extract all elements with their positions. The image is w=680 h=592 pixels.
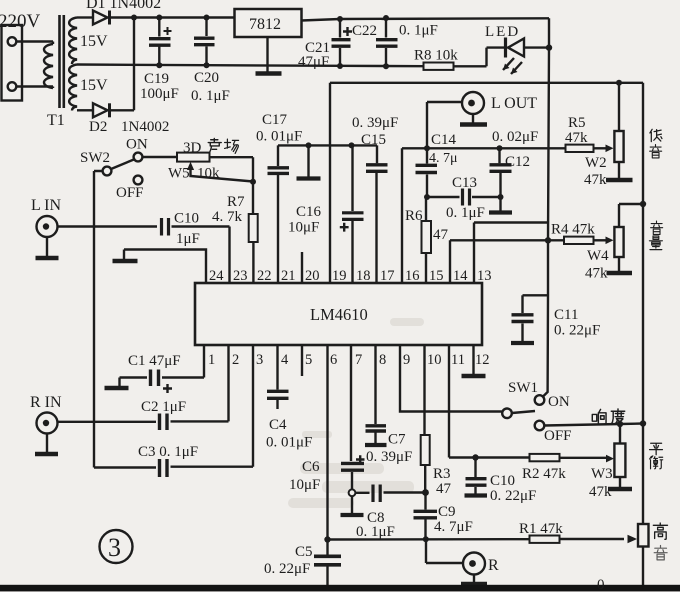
bottom scan border [0, 585, 680, 592]
pin20 stub [301, 252, 303, 283]
svg-text:LM4610: LM4610 [310, 305, 368, 324]
capacitor C9 4.7uF [424, 493, 426, 510]
faint watermark remnants [288, 318, 424, 508]
regulator U2 7812 [235, 9, 302, 37]
wire pin16 rail to R5 [402, 148, 596, 283]
resistor R5 47k [566, 145, 594, 152]
node junction D2 riser [131, 15, 137, 21]
svg-text:47: 47 [436, 481, 452, 497]
wire pin6 down to bottom rail [326, 345, 328, 540]
svg-text:47μF: 47μF [298, 54, 329, 70]
capacitor C4 0.01uF [276, 345, 278, 390]
svg-text:0. 01μF: 0. 01μF [256, 129, 302, 145]
capacitor C19 [156, 15, 162, 21]
svg-text:C19: C19 [144, 71, 169, 87]
svg-text:OFF: OFF [116, 185, 144, 201]
potentiometer treble (on right rail) [638, 524, 649, 547]
capacitor C16 in pin18 lead [349, 142, 355, 148]
svg-text:1: 1 [208, 352, 215, 368]
svg-text:C1 47μF: C1 47μF [128, 353, 181, 369]
wire pin11 to R2 [449, 345, 530, 458]
svg-text:20: 20 [305, 268, 320, 284]
wire pin14 to R4 [450, 240, 564, 283]
svg-text:C6: C6 [302, 459, 320, 475]
polarity plus C21/C22 [343, 27, 352, 36]
transformer T1 primary winding [44, 44, 53, 88]
LED D3 [504, 38, 507, 58]
svg-text:R2 47k: R2 47k [522, 466, 566, 482]
svg-text:R: R [488, 557, 499, 574]
capacitor C6 10uF [356, 455, 365, 464]
potentiometer W3 47k [619, 424, 621, 444]
svg-text:47k: 47k [589, 484, 612, 500]
svg-text:0. 39μF: 0. 39μF [352, 115, 398, 131]
svg-text:3: 3 [256, 352, 263, 368]
bottom rail to R1 [328, 538, 530, 541]
wire L IN to C10 [58, 225, 158, 227]
capacitor C17 in pin21 lead [277, 145, 279, 283]
capacitor C7 0.39uF [366, 426, 387, 431]
svg-text:L IN: L IN [31, 197, 62, 214]
svg-text:R1 47k: R1 47k [519, 521, 563, 537]
resistor R8 [424, 63, 454, 70]
svg-text:C5: C5 [295, 544, 313, 560]
svg-text:15V: 15V [80, 77, 108, 94]
svg-text:21: 21 [281, 268, 296, 284]
svg-text:7812: 7812 [249, 16, 281, 33]
label treble [653, 523, 667, 539]
label bass [650, 145, 662, 158]
svg-text:R7: R7 [227, 194, 245, 210]
connector L OUT [462, 92, 484, 114]
node C14/C13/R6 [424, 194, 430, 200]
svg-text:0: 0 [597, 577, 605, 592]
capacitor C10 1uF [162, 218, 169, 236]
svg-text:0. 39μF: 0. 39μF [366, 449, 412, 465]
wire pin24 ground lead [124, 250, 206, 284]
volume node on right rail [640, 201, 646, 207]
svg-text:4: 4 [281, 352, 289, 368]
resistor R6 47 [425, 197, 427, 221]
capacitor C10 0.22uF (R channel) [474, 458, 476, 478]
svg-text:T1: T1 [47, 112, 65, 129]
svg-text:R IN: R IN [30, 394, 62, 411]
potentiometer W2 47k [616, 80, 622, 86]
wire pin21 upper rail [278, 144, 377, 146]
svg-text:D1 1N4002: D1 1N4002 [86, 0, 161, 12]
svg-text:ON: ON [548, 394, 570, 410]
capacitor C5 0.22uF [326, 540, 328, 555]
svg-text:0. 01μF: 0. 01μF [266, 435, 312, 451]
svg-text:R3: R3 [433, 466, 451, 482]
svg-text:8: 8 [379, 352, 386, 368]
wire plug to primary [16, 42, 53, 87]
svg-text:C20: C20 [194, 70, 219, 86]
svg-text:7: 7 [355, 352, 362, 368]
wire pin7 to C6 [350, 345, 352, 461]
figure number 3 [100, 530, 133, 563]
svg-text:15V: 15V [80, 33, 108, 50]
ground hang on rail [306, 142, 312, 148]
svg-text:9: 9 [403, 352, 410, 368]
potentiometer W4 47k [614, 227, 623, 257]
wire pin9 to SW1 pole [400, 345, 502, 412]
svg-text:ON: ON [126, 137, 148, 153]
svg-text:R6: R6 [405, 208, 423, 224]
svg-text:R5: R5 [568, 115, 586, 131]
svg-text:19: 19 [332, 268, 347, 284]
wiper arrow into W2 [596, 147, 608, 149]
resistor R1 47k [530, 536, 560, 543]
svg-text:24: 24 [209, 268, 224, 284]
svg-text:1N4002: 1N4002 [121, 119, 169, 135]
connector R OUT [426, 539, 462, 563]
ground pin12 [472, 345, 474, 374]
wire pin19 to top box rail [329, 83, 331, 283]
right rail vertical [642, 83, 644, 585]
capacitor C3 [94, 466, 156, 468]
wire SW2 pole down to C3 row [94, 171, 103, 468]
wire L OUT to C14 node [427, 102, 462, 164]
wire SW1 OFF to loudness node [545, 424, 644, 426]
svg-text:4. 7μF: 4. 7μF [434, 519, 473, 535]
svg-text:C9: C9 [438, 504, 456, 520]
svg-text:W3: W3 [591, 466, 613, 482]
svg-text:OFF: OFF [544, 428, 572, 444]
svg-text:C14: C14 [431, 132, 457, 148]
capacitor C12 0.02uF [500, 148, 501, 211]
svg-text:2: 2 [232, 352, 239, 368]
ground R IN [46, 434, 48, 453]
svg-text:C22: C22 [352, 23, 377, 39]
svg-text:0. 1μF: 0. 1μF [446, 205, 485, 221]
wire D1 to top rail [110, 16, 236, 18]
svg-text:0. 1μF: 0. 1μF [399, 23, 438, 39]
svg-text:4. 7k: 4. 7k [212, 209, 243, 225]
diode D1 [77, 16, 93, 18]
svg-text:100μF: 100μF [140, 86, 179, 102]
svg-text:C10: C10 [490, 473, 515, 489]
resistor R7 4.7k [252, 182, 254, 214]
svg-text:10: 10 [427, 352, 442, 368]
svg-text:47k: 47k [584, 172, 607, 188]
svg-text:12: 12 [475, 352, 490, 368]
svg-text:C15: C15 [361, 132, 386, 148]
svg-text:11: 11 [451, 352, 465, 368]
ground 7812 [266, 37, 268, 72]
svg-text:22: 22 [257, 268, 272, 284]
svg-text:C3 0. 1μF: C3 0. 1μF [138, 444, 198, 460]
capacitor C20 [204, 15, 210, 21]
svg-text:47k: 47k [565, 130, 588, 146]
svg-text:17: 17 [380, 268, 395, 284]
svg-text:0. 1μF: 0. 1μF [191, 88, 230, 104]
wire 7812 output rail [302, 18, 550, 20]
ground rail from center tap [77, 65, 424, 67]
svg-text:0. 22μF: 0. 22μF [264, 561, 310, 577]
transformer T1 secondary winding upper 15V [69, 18, 77, 65]
pin numbers top 24-13 [209, 268, 492, 284]
capacitor C11 0.22uF [523, 294, 549, 296]
resistor R2 47k [530, 454, 560, 461]
diode D2 [77, 109, 93, 111]
svg-text:SW1: SW1 [508, 380, 538, 396]
svg-text:C2 1μF: C2 1μF [141, 399, 186, 415]
capacitor C14 4.7u [416, 165, 438, 172]
capacitor C21 [337, 16, 343, 22]
mains plug P1 [2, 25, 23, 101]
svg-text:220V: 220V [0, 11, 41, 32]
LED emission arrows [503, 58, 522, 74]
svg-text:0. 22μF: 0. 22μF [490, 488, 536, 504]
svg-text:23: 23 [233, 268, 248, 284]
svg-text:C12: C12 [505, 154, 530, 170]
svg-text:W5: W5 [168, 166, 190, 182]
svg-text:W2: W2 [585, 155, 607, 171]
ground C1 [118, 378, 120, 387]
svg-text:1μF: 1μF [176, 231, 200, 247]
svg-text:47k: 47k [585, 266, 608, 282]
svg-text:C13: C13 [452, 175, 477, 191]
ground pin24 [123, 250, 125, 260]
pin numbers bottom 1-12 [208, 352, 490, 368]
svg-text:6: 6 [330, 352, 337, 368]
svg-text:C17: C17 [262, 112, 288, 128]
svg-text:W4: W4 [587, 248, 609, 264]
svg-text:R8 10k: R8 10k [414, 48, 458, 64]
svg-text:C11: C11 [554, 307, 578, 323]
top box rail +V [330, 82, 643, 84]
wire R8 to LED [454, 48, 505, 67]
IC U1 LM4610 [195, 283, 482, 345]
capacitor C2 [58, 421, 157, 423]
capacitor C8 0.1uF [355, 491, 425, 494]
svg-text:16: 16 [405, 268, 420, 284]
svg-text:0. 02μF: 0. 02μF [492, 129, 538, 145]
svg-text:10k: 10k [197, 166, 220, 182]
resistor R4 47k [564, 237, 594, 244]
ground L IN [46, 237, 48, 256]
capacitor C15 in pin17 lead [375, 145, 378, 283]
capacitor C22 [383, 15, 389, 21]
svg-text:0. 22μF: 0. 22μF [554, 323, 600, 339]
svg-text:LED: LED [485, 24, 520, 40]
ground R OUT [473, 575, 475, 584]
svg-text:14: 14 [453, 268, 468, 284]
svg-text:10μF: 10μF [288, 220, 319, 236]
standby line from LED down [543, 18, 550, 397]
svg-text:4. 7μ: 4. 7μ [429, 151, 458, 166]
label balance [650, 443, 663, 454]
pin5 stub [301, 345, 303, 376]
label volume [651, 221, 663, 234]
wire pin13 to standby line [474, 223, 548, 284]
svg-text:0. 1μF: 0. 1μF [356, 524, 395, 540]
transformer T1 secondary winding lower 15V [69, 65, 77, 111]
svg-text:C4: C4 [269, 417, 287, 433]
svg-text:47: 47 [433, 227, 449, 243]
svg-text:10μF: 10μF [289, 477, 320, 493]
svg-text:15: 15 [429, 268, 444, 284]
svg-text:C10: C10 [174, 211, 199, 227]
svg-text:L OUT: L OUT [491, 95, 537, 112]
wire pin8 to C7 [374, 345, 376, 424]
label loudness [592, 409, 606, 424]
svg-text:C16: C16 [296, 204, 322, 220]
svg-text:3: 3 [108, 533, 121, 562]
svg-text:SW2: SW2 [80, 150, 110, 166]
svg-text:D2: D2 [89, 119, 107, 135]
capacitor C13 0.1uF [427, 196, 501, 198]
resistor R3 47 [423, 345, 425, 435]
svg-text:13: 13 [477, 268, 492, 284]
svg-text:5: 5 [305, 352, 312, 368]
transformer T1 core [60, 15, 64, 108]
wire D2 riser [133, 18, 135, 111]
ground L OUT [472, 114, 474, 123]
potentiometer W5 10k [142, 156, 177, 158]
capacitor C1 [120, 376, 148, 378]
svg-text:C7: C7 [388, 432, 406, 448]
svg-text:18: 18 [356, 268, 371, 284]
svg-text:R4 47k: R4 47k [551, 222, 595, 238]
